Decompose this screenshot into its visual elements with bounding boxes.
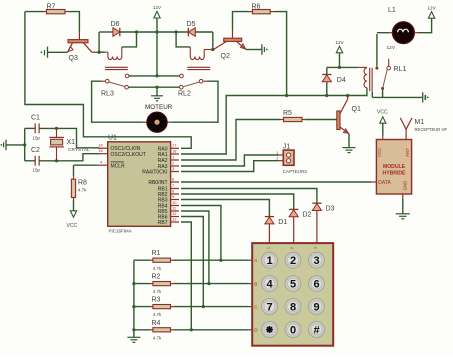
svg-text:ANT: ANT: [405, 148, 410, 157]
svg-text:Q3: Q3: [69, 55, 78, 62]
svg-text:RB0/INT: RB0/INT: [148, 180, 167, 186]
svg-text:12V: 12V: [153, 5, 162, 10]
svg-text:DATA: DATA: [378, 180, 391, 186]
svg-text:R4: R4: [152, 320, 161, 327]
svg-text:VCC: VCC: [377, 109, 388, 115]
svg-text:L1: L1: [388, 7, 396, 14]
svg-text:5: 5: [290, 278, 296, 290]
svg-text:D6: D6: [111, 21, 120, 28]
svg-text:U1: U1: [108, 135, 117, 142]
svg-text:RL1: RL1: [394, 66, 407, 73]
svg-text:12V: 12V: [428, 5, 437, 10]
svg-text:13: 13: [172, 216, 177, 221]
svg-text:OSC2/CLKOUT: OSC2/CLKOUT: [111, 152, 146, 158]
svg-text:D2: D2: [303, 212, 312, 219]
svg-text:D3: D3: [326, 206, 335, 213]
svg-text:X1: X1: [67, 139, 76, 146]
svg-text:VCC: VCC: [67, 223, 78, 229]
svg-text:15: 15: [98, 148, 103, 153]
svg-text:12V: 12V: [387, 45, 396, 51]
svg-text:6: 6: [313, 278, 319, 290]
svg-text:CRYSTAL: CRYSTAL: [68, 147, 90, 153]
svg-text:12V: 12V: [335, 40, 344, 45]
svg-text:3: 3: [313, 255, 319, 267]
svg-text:Q1: Q1: [352, 106, 361, 113]
svg-text:RL2: RL2: [178, 91, 191, 98]
svg-text:Q2: Q2: [221, 53, 230, 60]
svg-text:C1: C1: [31, 114, 40, 121]
svg-text:#: #: [313, 324, 319, 336]
svg-text:4.7k: 4.7k: [153, 289, 162, 294]
svg-text:RECEPTEUR HF: RECEPTEUR HF: [415, 127, 448, 132]
svg-text:R7: R7: [47, 4, 56, 11]
svg-text:J1: J1: [283, 144, 291, 151]
svg-text:4.7k: 4.7k: [153, 335, 162, 340]
svg-text:VCC: VCC: [377, 148, 382, 157]
svg-text:M1: M1: [415, 119, 425, 126]
svg-text:R5: R5: [283, 110, 292, 117]
svg-text:9: 9: [313, 301, 319, 313]
svg-text:18: 18: [172, 148, 177, 153]
svg-text:GND: GND: [403, 181, 408, 191]
svg-text:D5: D5: [187, 21, 196, 28]
svg-text:R2: R2: [152, 274, 161, 281]
svg-text:1: 1: [267, 247, 271, 249]
svg-text:4: 4: [266, 278, 273, 290]
svg-text:7: 7: [266, 301, 272, 313]
svg-text:PIC16F84A: PIC16F84A: [109, 229, 132, 234]
svg-text:3: 3: [314, 247, 318, 249]
svg-text:2: 2: [290, 255, 296, 267]
svg-text:R8: R8: [78, 180, 87, 187]
svg-text:D4: D4: [337, 77, 346, 84]
svg-text:0: 0: [290, 324, 296, 336]
svg-text:RL3: RL3: [101, 91, 114, 98]
svg-text:16: 16: [98, 142, 103, 147]
svg-text:R1: R1: [152, 250, 161, 257]
svg-text:4.7k: 4.7k: [153, 312, 162, 317]
svg-text:12: 12: [172, 211, 177, 216]
svg-text:MCLR: MCLR: [111, 163, 126, 169]
svg-text:4.7k: 4.7k: [153, 266, 162, 271]
svg-text:1: 1: [266, 255, 272, 267]
svg-text:RA4/T0CKI: RA4/T0CKI: [142, 170, 167, 176]
svg-text:4.7k: 4.7k: [78, 187, 87, 192]
svg-text:D1: D1: [278, 219, 287, 226]
svg-text:8: 8: [290, 301, 296, 313]
svg-text:CAPTEURS: CAPTEURS: [283, 169, 308, 174]
svg-text:MODULE: MODULE: [383, 164, 406, 170]
svg-text:2: 2: [290, 247, 294, 249]
svg-text:R3: R3: [152, 297, 161, 304]
svg-text:15p: 15p: [33, 168, 41, 173]
svg-text:B: B: [254, 281, 257, 286]
svg-text:17: 17: [172, 143, 177, 148]
svg-text:HYBRIDE: HYBRIDE: [383, 171, 407, 177]
svg-text:R6: R6: [252, 4, 261, 11]
svg-text:RB7: RB7: [158, 220, 168, 226]
svg-text:MOTEUR: MOTEUR: [145, 104, 173, 111]
svg-text:10: 10: [172, 200, 177, 205]
svg-text:C2: C2: [31, 147, 40, 154]
svg-text:15p: 15p: [33, 136, 41, 141]
